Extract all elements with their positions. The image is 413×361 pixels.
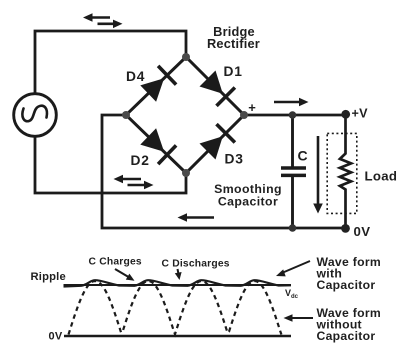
node capacitor top junction	[289, 111, 297, 119]
node bridge top	[182, 53, 190, 61]
svg-text:Capacitor: Capacitor	[218, 194, 278, 208]
svg-text:+V: +V	[352, 106, 369, 120]
svg-text:C: C	[298, 147, 308, 163]
arrow current right (+V)	[274, 98, 309, 106]
label Smoothing Capacitor	[214, 182, 282, 209]
svg-text:+: +	[248, 100, 256, 115]
waveform without capacitor dashed	[69, 281, 282, 335]
label Bridge Rectifier	[207, 24, 260, 51]
arrow current down (load)	[313, 136, 323, 214]
arrow AC bottom double	[114, 175, 154, 189]
waveform 0V line	[64, 335, 291, 337]
diode D2	[140, 128, 176, 164]
svg-text:Ripple: Ripple	[31, 271, 66, 283]
node capacitor bottom junction	[289, 224, 297, 232]
arrow wave form without capacitor	[284, 314, 314, 322]
capacitor C	[281, 115, 306, 228]
arrow current left (0V rail)	[178, 213, 215, 222]
svg-text:Load: Load	[365, 169, 398, 184]
svg-text:D2: D2	[131, 153, 150, 168]
svg-text:D1: D1	[224, 64, 243, 79]
wire AC top to bridge top	[35, 31, 186, 95]
svg-text:0V: 0V	[354, 224, 371, 239]
node bridge right	[240, 111, 248, 119]
resistor Load	[340, 115, 351, 228]
svg-text:C Charges: C Charges	[89, 257, 142, 268]
arrow C Discharges	[175, 269, 182, 280]
svg-text:0V: 0V	[49, 331, 63, 343]
svg-text:Capacitor: Capacitor	[317, 278, 376, 292]
waveform DC level line	[64, 284, 292, 286]
node bridge left	[122, 111, 130, 119]
wire 0V rail right	[292, 227, 346, 230]
wire AC bottom to bridge bottom	[35, 136, 186, 194]
load box dashed	[327, 133, 357, 213]
arrow AC top double	[83, 13, 123, 28]
waveform ripple with capacitor	[64, 280, 292, 286]
svg-text:C Discharges: C Discharges	[162, 258, 230, 269]
node +V terminal	[341, 110, 350, 119]
svg-text:Rectifier: Rectifier	[207, 36, 260, 51]
svg-text:D4: D4	[126, 69, 145, 84]
diode D1	[200, 71, 235, 106]
label Wave form with Capacitor	[316, 255, 382, 292]
AC source	[14, 94, 57, 137]
bridge arms	[126, 57, 244, 173]
arrow C Charges	[115, 269, 135, 281]
diode D3	[200, 124, 235, 159]
label Wave form without Capacitor	[316, 306, 382, 343]
svg-text:Capacitor: Capacitor	[317, 329, 376, 343]
wire bridge right node to +V	[244, 114, 346, 117]
wire bridge left node to 0V rail	[102, 115, 292, 228]
node bridge bottom	[182, 169, 190, 177]
node 0V terminal	[341, 224, 350, 233]
arrow wave form with capacitor	[276, 261, 310, 276]
diode D4	[140, 66, 176, 102]
svg-text:D3: D3	[225, 152, 244, 167]
